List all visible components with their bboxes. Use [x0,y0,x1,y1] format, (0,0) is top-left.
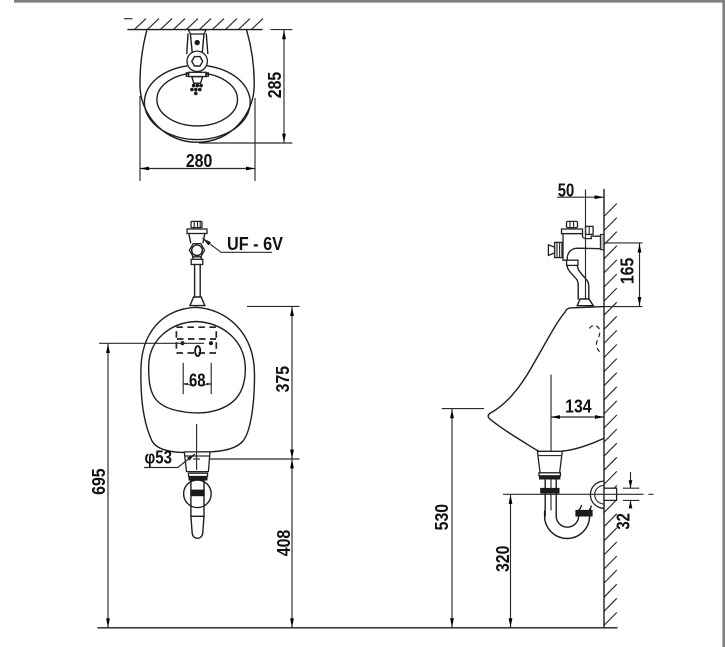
side view: valve outlet flange [567,260,578,265]
front view: fixing dots [180,341,184,345]
side view: urinal front profile [488,312,565,451]
floor line [98,627,617,629]
front view: valve body taper [189,234,205,243]
side view: outlet centerline [503,493,654,495]
page border top bar [14,0,725,3]
dimension 165 extension lines [604,243,643,307]
front view: drain centerline [196,424,198,470]
dimension 68 line [183,383,211,385]
dimension 134 line [551,416,604,418]
side view: drain flange [539,473,560,476]
front view: pipe flare [190,297,205,306]
dimension 32 ticks [623,472,639,508]
svg-text:280: 280 [186,150,213,171]
dimension 280 extension lines [140,96,255,181]
side view: drain body [537,451,562,473]
svg-text:32: 32 [612,513,633,530]
front view: flush pipe [195,265,201,298]
side view: trap inlet pipe [545,479,556,516]
svg-text:165: 165 [616,258,637,285]
side view: handle rings [555,242,562,257]
svg-text:530: 530 [431,504,452,531]
top view: flush valve cap (plan) [188,30,206,34]
dimension 530 extension line [442,408,484,410]
label phi53 leader [144,454,195,468]
side view: P-trap outer curve [545,509,590,539]
side view: pipe flare [577,299,593,306]
top view: spray holes [190,84,203,95]
front view: small slot [195,346,200,356]
dimension 695 line [107,343,109,628]
side view: wall line [603,190,605,628]
front view: drain body [184,452,210,472]
front view: urinal outer outline [141,307,255,452]
front view: inner rim [149,322,246,413]
side view: valve body [563,234,601,261]
dimension 50 line [557,196,604,198]
side view: S pipe [567,265,578,299]
dimension 280 line [140,168,255,170]
svg-text:320: 320 [492,546,513,573]
front view: tail pipe rounded end [192,534,203,539]
top view: valve hex nut [192,57,203,66]
front view: valve push button cap [191,221,202,227]
side view: wall outlet stub [604,488,617,500]
side view: trap arm nut [575,510,592,517]
dimension 375 extension lines [206,306,300,459]
page border right bar [722,0,725,647]
dimension 408 line [291,459,293,628]
top view: rim oval [144,65,250,139]
dimension 165 line [639,243,641,307]
top view: valve nut circle [187,51,207,71]
top view: valve neck lines [187,34,208,54]
svg-text:φ53: φ53 [144,447,172,468]
dimension 695 extension line [99,342,204,344]
side view: wall inlet flange [600,234,604,249]
top view: wall hatching [124,19,263,30]
side view: wall hatching [604,204,617,626]
top view: valve screw dot [195,40,200,45]
front view: valve lower neck [193,257,201,260]
dimension 375 line [291,306,293,459]
front view: hidden spud (dashed rect) [176,327,216,353]
side view: trap right arm [579,506,592,513]
svg-text:285: 285 [264,72,285,99]
dimension 68 extension lines [183,363,211,394]
front view: tail pipe [191,480,204,533]
side view: valve cap [567,221,578,227]
label UF-6V leader arrow [203,238,211,245]
side view: slip nut [540,488,559,494]
front view: valve top plate [187,229,207,234]
svg-text:695: 695 [88,468,109,495]
side view: urinal top edge [565,307,604,313]
side view: urinal bottom edge at wall [563,438,605,451]
dimension 320 line [510,494,512,628]
front view: slip nut [190,490,204,497]
svg-text:UF - 6V: UF - 6V [227,233,284,254]
side view: P-trap inner curve [556,510,578,527]
dimension 530 line [451,409,453,628]
side view: valve centerline [585,190,587,300]
top view: bowl inner oval [157,73,238,126]
svg-text:375: 375 [272,366,293,393]
dimension 285 extension lines [199,30,292,143]
svg-text:68: 68 [189,370,206,391]
top view: wall line [128,29,262,31]
svg-text:408: 408 [273,530,294,557]
top view: urinal outer outline [140,30,254,143]
front view: valve hex body [189,244,204,257]
dimension 68 text [188,372,207,385]
side view: handle cone [548,245,554,256]
svg-text:134: 134 [565,396,592,417]
dimension 285 line [283,30,285,143]
side view: hidden channel (dashed) [590,325,601,352]
top view: spreader tip [192,77,203,84]
side view: valve top plate [562,229,583,234]
side view: inlet block [586,226,594,234]
front view: trap ring circle [184,480,212,508]
side view: drain centerline [550,375,552,511]
front view: valve outlet flange [191,259,203,264]
side view: wall escutcheon dome [590,481,604,508]
front view: drain flange [189,473,208,476]
front view: drain centerline dashes [193,458,200,460]
front view: valve circle [192,245,203,256]
top view: spreader flange [189,72,206,76]
